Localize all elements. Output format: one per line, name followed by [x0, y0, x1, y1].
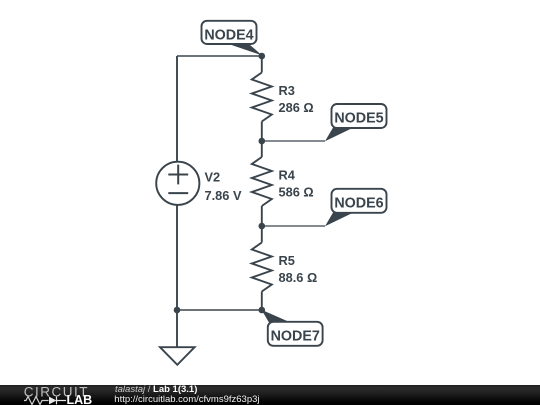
svg-text:http://circuitlab.com/cfvms9fz: http://circuitlab.com/cfvms9fz63p3j: [114, 394, 259, 405]
node C junction dot (node6): [259, 223, 266, 230]
svg-text:R3: R3: [279, 83, 295, 98]
wire bottom horizontal: [177, 309, 262, 311]
node E junction dot (ground tee): [174, 307, 181, 314]
node NODE4 flag: [202, 21, 263, 56]
footer bar: [0, 385, 540, 405]
logo circuit: diode: [49, 397, 57, 405]
svg-text:NODE6: NODE6: [334, 195, 383, 211]
node D junction dot (node7): [259, 307, 266, 314]
wire R5 to node7: [261, 292, 263, 311]
wire top horizontal: [177, 55, 262, 57]
resistor R4: [252, 157, 272, 206]
svg-text:NODE4: NODE4: [204, 27, 253, 43]
voltage source V2: [156, 162, 199, 205]
logo circuit: resistor squiggle: [24, 397, 49, 405]
svg-text:586 Ω: 586 Ω: [279, 185, 314, 200]
svg-text:NODE5: NODE5: [334, 111, 383, 127]
wire R4 to node6: [261, 206, 263, 243]
svg-text:R4: R4: [279, 168, 296, 183]
node A junction dot top: [259, 53, 266, 60]
ground: [160, 347, 195, 365]
node NODE7 flag: [262, 310, 323, 346]
wire left vertical lower: [176, 205, 178, 310]
leader line node5: [262, 140, 325, 142]
svg-text:7.86 V: 7.86 V: [205, 188, 242, 203]
node NODE5 flag: [325, 104, 387, 141]
wire ground stem: [176, 310, 178, 347]
wire left vertical upper: [176, 56, 178, 162]
node B junction dot (node5): [259, 138, 266, 145]
svg-text:R5: R5: [279, 253, 295, 268]
leader line node6: [262, 225, 325, 227]
svg-text:V2: V2: [205, 169, 221, 184]
resistor R5: [252, 243, 272, 292]
resistor R3: [252, 73, 272, 122]
svg-text:LAB: LAB: [67, 393, 93, 405]
wire node4 to R3: [261, 56, 263, 73]
svg-text:286 Ω: 286 Ω: [279, 100, 314, 115]
svg-text:88.6 Ω: 88.6 Ω: [279, 270, 318, 285]
node NODE6 flag: [325, 189, 387, 226]
svg-text:NODE7: NODE7: [271, 328, 320, 344]
wire R3 to node5: [261, 122, 263, 158]
